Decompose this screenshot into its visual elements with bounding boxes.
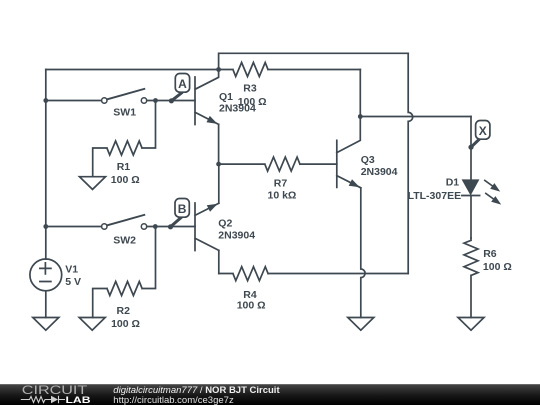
resistor R2 xyxy=(93,227,156,318)
LED arrowhead 2 xyxy=(491,196,501,205)
svg-text:2N3904: 2N3904 xyxy=(361,166,398,178)
wire top-left horizontal rail xyxy=(46,69,219,71)
diode D1 LED xyxy=(463,180,478,194)
junction dot emitters R7 xyxy=(216,162,221,167)
node label A xyxy=(171,74,189,101)
svg-text:Q2: Q2 xyxy=(218,218,232,230)
ground for V1 xyxy=(33,318,59,331)
resistor R4 xyxy=(219,267,268,281)
LED arrow 1 xyxy=(485,180,495,187)
svg-text:B: B xyxy=(178,202,187,216)
ground for R2 xyxy=(79,318,105,331)
node A dot xyxy=(169,98,174,103)
svg-text:2N3904: 2N3904 xyxy=(218,229,255,241)
resistor R7 xyxy=(219,157,337,171)
wire SW1 to Q1 base xyxy=(147,100,195,102)
resistor R1 xyxy=(93,101,156,177)
wire V1 bottom to ground xyxy=(45,291,47,318)
svg-text:R1: R1 xyxy=(117,161,131,173)
resistor R3 xyxy=(219,63,361,77)
svg-text:100 Ω: 100 Ω xyxy=(111,174,140,186)
Q2 emitter arrowhead xyxy=(207,204,218,212)
wire SW2 to Q2 base xyxy=(147,226,195,228)
node B dot xyxy=(168,224,173,229)
svg-text:100 Ω: 100 Ω xyxy=(111,318,140,330)
junction dot Q3 collector xyxy=(358,114,363,119)
wire Q1 emitter down xyxy=(218,124,220,164)
node X dot xyxy=(468,145,473,150)
ground for R1 xyxy=(80,177,106,190)
transistor Q3 xyxy=(337,117,361,188)
wire SW1 row left xyxy=(46,100,102,102)
svg-text:R7: R7 xyxy=(274,178,288,190)
svg-text:X: X xyxy=(479,124,487,138)
node label B xyxy=(171,199,190,227)
switch SW1 xyxy=(102,98,107,103)
wire left vertical rail xyxy=(45,70,47,260)
resistor R6 xyxy=(464,238,478,318)
LED arrowhead 1 xyxy=(490,183,500,192)
junction dot R1 top xyxy=(153,98,158,103)
logo resistor and diode xyxy=(21,396,65,403)
svg-text:LTL-307EE: LTL-307EE xyxy=(408,190,461,202)
ground for R6 xyxy=(458,318,484,331)
svg-text:10 kΩ: 10 kΩ xyxy=(268,190,297,202)
svg-text:100 Ω: 100 Ω xyxy=(237,300,266,312)
wire R3 right down to node xyxy=(359,70,361,117)
wire Q2 collector down to R4 xyxy=(218,250,220,273)
svg-text:Q1: Q1 xyxy=(219,91,233,103)
LED arrow 2 xyxy=(486,193,496,200)
switch SW2 xyxy=(102,224,107,229)
voltage source V1 xyxy=(30,259,62,291)
wire X column down to D1 xyxy=(470,117,472,181)
junction dot Q1 collector xyxy=(216,67,221,72)
svg-text:R3: R3 xyxy=(243,83,257,95)
junction dot left SW2 xyxy=(43,224,48,229)
transistor Q1 xyxy=(195,70,219,125)
ground for Q3 xyxy=(348,318,374,331)
junction dot R2 top xyxy=(153,224,158,229)
svg-text:Q3: Q3 xyxy=(361,154,375,166)
svg-text:SW1: SW1 xyxy=(113,106,136,118)
svg-text:V1: V1 xyxy=(65,264,78,276)
svg-text:100 Ω: 100 Ω xyxy=(483,261,512,273)
svg-text:A: A xyxy=(178,77,187,91)
wire Q2 emitter up xyxy=(218,164,220,203)
svg-text:R6: R6 xyxy=(483,248,497,260)
svg-text:LAB: LAB xyxy=(66,395,91,405)
node label X xyxy=(471,121,490,148)
transistor Q2 xyxy=(195,203,219,251)
Q1 emitter arrowhead xyxy=(207,116,218,124)
svg-text:R2: R2 xyxy=(117,305,131,317)
wire Q1 collector up and top rail xyxy=(219,53,409,69)
wire right vertical with hop xyxy=(408,53,413,273)
wire node to X column xyxy=(360,116,471,118)
Q3 emitter arrowhead xyxy=(349,179,360,187)
svg-text:5 V: 5 V xyxy=(65,276,81,288)
svg-text:D1: D1 xyxy=(446,176,460,188)
wire Q3 emitter down with hop to ground xyxy=(361,188,365,318)
wire bottom horizontal to R4 xyxy=(268,273,408,275)
wire SW2 row left xyxy=(46,226,102,228)
junction dot left SW1 xyxy=(43,98,48,103)
svg-text:SW2: SW2 xyxy=(113,235,136,247)
svg-text:100 Ω: 100 Ω xyxy=(238,96,267,108)
svg-text:http://circuitlab.com/ce3ge7z: http://circuitlab.com/ce3ge7z xyxy=(113,395,234,405)
